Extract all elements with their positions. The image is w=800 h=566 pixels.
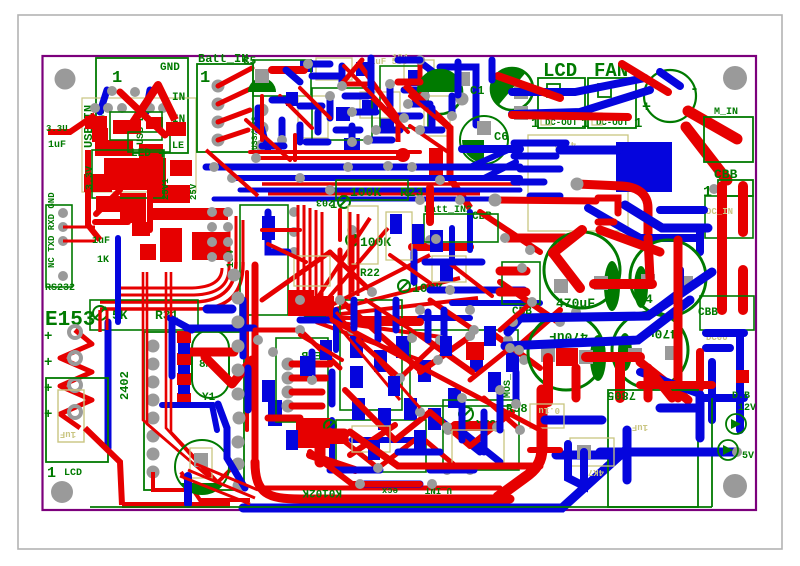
pad cbb right (709, 184, 719, 194)
mounting hole bottom-left (51, 481, 73, 503)
svg-text:C5: C5 (243, 56, 257, 68)
svg-text:1: 1 (112, 69, 122, 88)
khaki box 7805 (528, 135, 628, 231)
pads rs232 (58, 208, 68, 218)
wire red r vertical x350 (349, 212, 352, 300)
green sq dc1 (547, 84, 560, 97)
wire red u3b (342, 82, 368, 87)
capacitor C11 ring (612, 312, 688, 388)
resistor 100K b (346, 234, 358, 246)
wire red vertical 420 (418, 64, 423, 100)
resistor red bar mid2 (412, 243, 470, 251)
pad row usb (90, 103, 100, 113)
wire red bus b (268, 193, 480, 196)
pad cbb2 (508, 317, 518, 327)
connector M_IN outline (704, 117, 753, 162)
wire red arc bundle 1 (100, 262, 236, 302)
svg-text:D.B: D.B (732, 391, 750, 402)
pads r58 (442, 422, 452, 432)
wire red bus a (262, 182, 520, 185)
wire red hub long diag (332, 320, 540, 430)
wire red bottom bus (255, 462, 510, 499)
via red (396, 148, 410, 162)
green box 7805 (608, 390, 698, 507)
red mesh diagonals (340, 300, 560, 455)
wire red thin verticals left (143, 272, 222, 486)
svg-text:4: 4 (645, 292, 653, 307)
capacitor C6 fill (462, 140, 484, 163)
wire blue pour stub (560, 146, 618, 155)
ic U3 outline green (312, 66, 428, 140)
mounting hole top-right (723, 66, 747, 90)
svg-text:100K: 100K (350, 185, 381, 200)
wire red right diag (640, 362, 688, 400)
pad reg (571, 178, 584, 191)
wire blue cb d2 (460, 430, 500, 462)
wire blue mid v1 (467, 212, 473, 250)
svg-text:100K: 100K (360, 235, 391, 250)
wire blue y route (218, 404, 245, 488)
pad sq c5 (255, 69, 269, 83)
wire red big corner (498, 390, 542, 497)
wire blue fan1 (512, 78, 645, 92)
svg-text:12V: 12V (738, 403, 756, 414)
wire blue ybar2 (207, 305, 232, 314)
fan hub red center (300, 296, 334, 316)
wire red diag bus (206, 150, 258, 196)
pads batt column2 (256, 104, 269, 117)
resistor red bar c5 (272, 66, 304, 74)
regulator red cluster (84, 116, 190, 223)
green outlines center bottom (336, 300, 518, 472)
wire red top diag pair (340, 60, 362, 86)
blue pour region (616, 142, 672, 192)
connector RS232 outline (46, 205, 72, 287)
diode DA triangle (731, 419, 741, 429)
wire red right col v (696, 352, 704, 388)
wire red diag u3 (358, 62, 398, 142)
svg-text:1: 1 (634, 116, 642, 132)
pad sq dc (514, 85, 528, 99)
pad sq c1 (456, 72, 470, 86)
diode DA ring (726, 414, 746, 434)
svg-text:1uF: 1uF (48, 140, 66, 151)
stack red r1 (177, 331, 191, 407)
capacitor C6 ring (460, 116, 508, 164)
wire red dcin b (598, 219, 614, 226)
wire blue bottom bus (243, 449, 627, 508)
pad usb1 (107, 86, 117, 96)
wire red r vertical x358 (357, 214, 360, 296)
wire blue lcd vertical (105, 322, 112, 448)
wire red fan x2 (688, 111, 737, 139)
khaki dc1 (541, 113, 551, 125)
blue rect pairs extra (286, 214, 496, 460)
capacitor C10 ring (528, 314, 604, 390)
khaki rects center (294, 206, 564, 464)
wire blue mid mass (248, 300, 516, 484)
wire blue cb v2 (329, 420, 335, 470)
pads mesh2 (335, 295, 345, 305)
symbol slash r58 (459, 407, 473, 421)
wire blue fan3 (660, 72, 680, 86)
svg-text:1uF: 1uF (632, 422, 648, 432)
wire red cbb2 bar2 (500, 288, 526, 297)
wire blue mesh2 (300, 252, 484, 470)
wire red fan x3 (686, 127, 727, 180)
svg-text:4K7: 4K7 (588, 467, 604, 477)
pads column C1x (207, 207, 217, 217)
wire red fan h (512, 115, 628, 117)
wire red topcenter extra (246, 88, 446, 160)
wire red cbb bar3 (738, 270, 748, 310)
pads column right of Y1 (232, 292, 245, 305)
svg-text:+: + (158, 146, 167, 163)
mounting hole top-left (55, 69, 76, 90)
wire red dcin a (598, 198, 618, 213)
fan circle (644, 70, 696, 122)
wire red arc feeders (229, 216, 243, 268)
resistor keyb bar5 (268, 415, 300, 422)
red block U2 (140, 208, 230, 262)
wire blue bus right1 (508, 272, 712, 332)
wire blue right diag low (640, 372, 700, 394)
wire blue bus1 (206, 164, 520, 171)
wire red y V (205, 357, 252, 384)
wire blue mid3 (420, 315, 470, 321)
pads extra top (303, 59, 313, 69)
khaki cap outline (58, 390, 84, 442)
symbol slash203 (338, 196, 350, 208)
wire blue bus bend1 (470, 150, 508, 167)
diode D1 green half disc (248, 78, 276, 92)
crystal Y1 outline (192, 330, 229, 398)
wire red cap v1 (543, 358, 553, 402)
blue rect keyb left (268, 400, 282, 426)
svg-text:C1: C1 (470, 84, 484, 98)
wire blue top verticals (371, 58, 492, 95)
svg-text:GND: GND (160, 62, 180, 74)
resistor 100K a outline (336, 180, 408, 200)
wire red left v (147, 190, 153, 230)
wire blue fan2 (512, 90, 650, 114)
green line right (90, 398, 712, 507)
red blob c2 (429, 148, 443, 178)
wire blue cb v1 (333, 310, 339, 350)
stack blue b1 (178, 343, 190, 394)
wire red batt 3 (218, 110, 250, 122)
red sq right col (736, 370, 749, 383)
pad sq circle (194, 453, 208, 467)
pads mid (425, 235, 435, 245)
symbol slash key (324, 420, 336, 432)
blue dc bars (700, 333, 744, 430)
wire blue batt down (262, 128, 268, 150)
connector big circle bottom (175, 440, 229, 494)
wire red cap bar (594, 279, 652, 289)
wire blue cluster (286, 62, 476, 142)
svg-text:RS232: RS232 (45, 283, 75, 294)
capacitor cbb2 outline (502, 262, 540, 304)
connector DCIN outline (705, 196, 753, 238)
svg-text:1: 1 (47, 465, 56, 482)
wire blue dcin (625, 205, 708, 228)
svg-text:2402: 2402 (118, 371, 132, 400)
pads batt column (212, 80, 225, 93)
LED outline green (92, 112, 170, 198)
cap lens fill 2 (634, 266, 648, 308)
wire red arc bundle 4 (118, 268, 222, 288)
svg-text:1uF: 1uF (60, 429, 76, 439)
svg-text:25V1: 25V1 (161, 178, 171, 200)
blue rects cluster (286, 62, 422, 121)
svg-text:MOS_: MOS_ (503, 373, 514, 398)
svg-text:+: + (44, 355, 52, 371)
blue smd pairs (262, 230, 519, 430)
capacitor C2 ring (418, 70, 462, 114)
resistor R31 outline (90, 300, 198, 330)
wire red reg link (648, 238, 650, 278)
wire red batt 1 (218, 68, 252, 86)
wire red rs232 tx (63, 226, 95, 229)
wire blue bus3 (240, 188, 520, 193)
blue rects top extra (300, 60, 394, 150)
wire red cap diag2 (553, 230, 582, 253)
capacitor C2 half fill (418, 70, 462, 92)
svg-text:1: 1 (200, 69, 210, 88)
svg-text:CBB: CBB (698, 307, 718, 319)
svg-text:DC_IN: DC_IN (706, 207, 733, 217)
wire red batt 2 (218, 88, 252, 104)
mcu pads col1 (223, 207, 233, 217)
svg-text:C6: C6 (494, 130, 508, 144)
capacitor C5 outline (253, 60, 311, 96)
blue rect mcu (262, 216, 275, 240)
wire red arcs feed (98, 310, 101, 332)
wire red center band extra (262, 210, 492, 360)
wire red left loop (88, 150, 100, 240)
wire blue cb h1 (352, 437, 420, 443)
keyb pads (282, 358, 295, 371)
green sq dc2 (598, 84, 611, 97)
wire red big V (128, 85, 175, 130)
resistor 100K c (398, 280, 410, 292)
wire blue usb d+ (146, 90, 150, 112)
wire red cap diag (553, 253, 580, 288)
wire blue stack v (169, 320, 176, 376)
wire red reg2 (495, 200, 596, 201)
wire blue vertical 243 (240, 300, 247, 356)
wire red arc bundle 3 (118, 268, 229, 295)
wire red cbb bar1 (717, 186, 727, 310)
wire blue c6 right (462, 145, 520, 153)
svg-text:25V: 25V (189, 183, 199, 200)
wire red vertical bus left2 (245, 272, 249, 430)
svg-text:LE: LE (172, 141, 184, 152)
svg-text:R22: R22 (360, 268, 380, 280)
blue bars left of pour (514, 143, 566, 196)
wire red cap h2 (586, 352, 640, 362)
wire blue ybottom (162, 405, 217, 430)
svg-text:1uF: 1uF (92, 236, 110, 247)
wire red lcd down (85, 428, 122, 505)
wire blue extra cluster (282, 64, 452, 140)
wire red rs232 rx (63, 240, 95, 243)
wire red reg (577, 184, 648, 238)
wire red cbb bar2 (738, 186, 748, 232)
wire red diag c2 (405, 85, 470, 208)
svg-text:NC TXD RXD GND: NC TXD RXD GND (47, 192, 57, 268)
svg-text:+: + (642, 99, 651, 116)
pad br (732, 447, 742, 457)
wire red mid diag1 (480, 212, 540, 252)
svg-text:LCD: LCD (64, 468, 82, 479)
wire blue mid1 (430, 287, 524, 294)
khaki box 4k7 (570, 438, 614, 466)
wire red staircase bottom (350, 432, 540, 466)
connector Batt_IN outline (197, 64, 253, 152)
capacitor C9 ring (630, 240, 706, 316)
capacitor C1 ring (491, 68, 533, 110)
pads cb (347, 325, 357, 335)
wire red mid diag2 (500, 282, 558, 322)
pad bus (209, 162, 219, 172)
wire red diag topc2 (344, 66, 408, 132)
wire red bus 488 (258, 486, 500, 491)
khaki inside circle (190, 448, 212, 478)
wire blue bus right3 (648, 270, 680, 316)
wire red mesh2 (255, 230, 532, 468)
big circle dark segment (180, 483, 224, 494)
header LCD outline (538, 78, 585, 128)
red ldo blobs (92, 122, 192, 236)
svg-text:5V: 5V (742, 451, 754, 462)
khaki dc2 (592, 113, 602, 125)
pad sq c6 (477, 121, 491, 135)
pads extra2 (253, 335, 263, 345)
wire red GND run (48, 115, 95, 132)
resistor keyb bar4 (292, 403, 322, 410)
capacitor CBB outline (718, 180, 753, 196)
wire blue dcin v (696, 228, 704, 252)
wire red arcs feed2 (106, 310, 109, 330)
green box battin2 (424, 214, 498, 242)
wire red fan x1 (622, 64, 668, 92)
wire red right big v (674, 240, 683, 398)
svg-text:1K: 1K (97, 255, 109, 266)
resistor red br2 (452, 423, 492, 431)
svg-text:0.1u: 0.1u (538, 405, 560, 415)
svg-text:3.3V: 3.3V (85, 166, 96, 190)
wire red arc bundle 2 (100, 262, 243, 309)
connector LCD plus marks (44, 329, 52, 423)
resistor keyb bar2 (292, 375, 326, 382)
svg-text:-: - (690, 81, 699, 98)
svg-text:3.3U: 3.3U (46, 124, 68, 134)
wire blue dcin2 (660, 206, 704, 214)
blue bars br (545, 395, 735, 480)
capacitor LCD box (46, 378, 108, 462)
svg-text:+: + (44, 329, 52, 345)
silk frame khaki (82, 98, 196, 192)
wire blue cb d1 (440, 420, 480, 452)
wire blue bus4 (214, 197, 500, 202)
wire red n1 (576, 368, 672, 398)
cap lens fill 1 (604, 261, 620, 311)
wire red dip bottom (153, 470, 230, 490)
cap lens fill 4 (618, 333, 632, 371)
green box r58 (443, 400, 519, 470)
wire blue center extra (425, 259, 482, 266)
wire red right h (640, 381, 712, 389)
diode DB triangle (723, 445, 733, 455)
red n block (320, 434, 344, 462)
dip pads left column (147, 340, 160, 479)
red mesh bars (300, 188, 492, 470)
svg-text:IN: IN (172, 92, 185, 104)
wire red batt 4 (218, 130, 248, 140)
wire red staircase2 (310, 452, 420, 484)
wire red vertical bus left (252, 265, 259, 470)
wire blue mid v2 (449, 228, 455, 266)
wire red left bar (398, 79, 420, 86)
khaki outlines smd (298, 58, 450, 138)
wire blue topcenter extra (258, 60, 432, 146)
resistor red bar mid1 (505, 234, 568, 243)
inductor zigzag red (60, 330, 92, 428)
mounting hole bottom-right (723, 474, 747, 498)
wire blue upper vertical (115, 238, 121, 322)
svg-text:470uF: 470uF (556, 296, 595, 311)
symbol nonplated (93, 306, 107, 320)
wire blue bus right2 (505, 300, 690, 346)
connector KEYB outline (276, 338, 328, 422)
ic 2402 outline (144, 332, 244, 490)
diode DB ring (718, 440, 738, 460)
board outline purple (43, 56, 757, 510)
pad usb2 (130, 87, 140, 97)
pads zigzag (69, 326, 81, 418)
wire red bottom left (122, 502, 230, 508)
wire blue mcu l (268, 212, 288, 252)
wire blue bus bend2 (484, 162, 516, 178)
red blobs cb (288, 290, 578, 448)
capacitor C8 ring (544, 232, 620, 308)
wire red br bar (530, 447, 560, 453)
wire red cbb2 bar1 (500, 267, 526, 276)
wire blue ydiag (170, 318, 192, 330)
wire red left d (96, 190, 120, 214)
wire red X left (120, 92, 165, 135)
resistor keyb bar1 (292, 361, 330, 368)
wire blue usb d- (100, 90, 107, 112)
wire red mcu verticals (298, 205, 322, 308)
resistor red bar y1 (184, 348, 234, 357)
fan hub blob (298, 297, 332, 319)
cap lens fill 3 (590, 335, 606, 381)
connector J1 USB outline (96, 58, 188, 153)
wire blue cross y (186, 325, 254, 332)
wire blue reg diag (588, 208, 700, 238)
wire blue circ v (184, 476, 192, 504)
wire red dip route (181, 472, 250, 500)
wire red extra top (250, 96, 448, 160)
wire red thin fan low (180, 312, 420, 504)
ic mcu outline (240, 205, 288, 315)
svg-text:K0102K: K0102K (302, 486, 342, 498)
wire blue mid2 (452, 300, 540, 306)
wire red cap v2 (615, 357, 625, 398)
